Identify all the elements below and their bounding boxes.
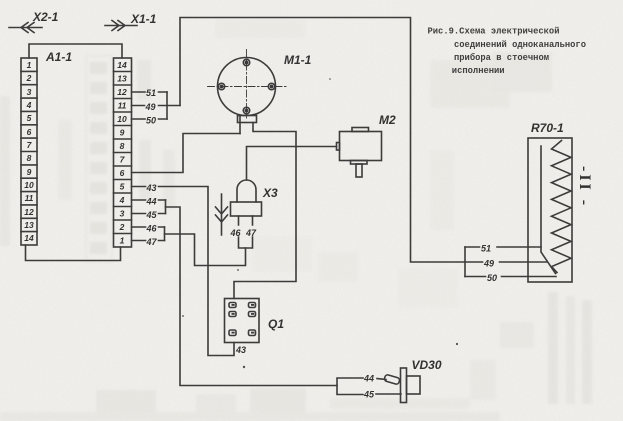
svg-text:12: 12: [117, 87, 127, 97]
label 43 at Q1: [235, 345, 246, 355]
svg-text:4: 4: [26, 100, 32, 110]
svg-text:44: 44: [146, 197, 157, 207]
label 47: [245, 228, 257, 238]
svg-text:11: 11: [25, 193, 34, 203]
svg-text:X2-1: X2-1: [32, 10, 59, 24]
label 51: [146, 88, 156, 98]
svg-text:6: 6: [120, 168, 125, 178]
svg-text:M1-1: M1-1: [284, 53, 312, 67]
svg-text:50: 50: [487, 273, 497, 283]
svg-text:45: 45: [146, 210, 158, 220]
label Q1: [268, 317, 284, 331]
caption line 4: [452, 66, 505, 76]
wire M1-1 feed from pin 6: [132, 134, 241, 173]
wire motor right lead to M2 node: [234, 123, 296, 299]
svg-text:43: 43: [235, 345, 246, 355]
igniter VD30 cable wires 44 and 45: [337, 378, 401, 395]
label 43: [146, 183, 157, 193]
junction bracket 51-49-50 at R70-1: [464, 247, 466, 277]
svg-text:A1-1: A1-1: [45, 50, 72, 64]
label M2: [379, 113, 396, 127]
svg-text:Рис.9.Схема электрической: Рис.9.Схема электрической: [428, 27, 560, 37]
svg-text:49: 49: [145, 102, 156, 112]
heater internal lead: [541, 146, 556, 274]
svg-text:1: 1: [120, 236, 125, 246]
connector symbol X2-1: [9, 23, 42, 33]
wire 46 from pin 2: [132, 226, 165, 228]
svg-text:Q1: Q1: [268, 317, 284, 331]
connector block X1-1: [114, 58, 132, 247]
wire motor left lead: [239, 116, 241, 134]
svg-text:10: 10: [117, 114, 127, 124]
wire A1-1 top to X1-1 top: [29, 44, 122, 58]
wire 50 to R70-1: [465, 276, 556, 278]
X1-1 pin numbers 14-1: [117, 60, 127, 246]
label 44: [146, 197, 157, 207]
junction bracket 46-47: [164, 227, 166, 241]
svg-text:14: 14: [117, 60, 127, 70]
svg-text:13: 13: [117, 74, 127, 84]
svg-text:2: 2: [119, 222, 125, 232]
svg-text:3: 3: [120, 209, 125, 219]
label 46: [146, 224, 158, 234]
svg-text:исполнении: исполнении: [452, 66, 505, 76]
junction bracket 51-49-50: [166, 92, 168, 119]
motor M1-1 center lines: [208, 50, 287, 119]
VD30 angled terminal stub: [384, 374, 400, 384]
label 45 at VD30: [363, 390, 375, 400]
svg-text:M2: M2: [379, 113, 396, 127]
wire 47 from pin 1: [132, 240, 165, 242]
svg-text:45: 45: [363, 390, 375, 400]
label 45: [146, 210, 158, 220]
connector block A1-1: [21, 58, 37, 245]
svg-text:46: 46: [230, 228, 242, 238]
svg-text:X3: X3: [262, 186, 278, 200]
wire 45 from pin 3: [132, 213, 166, 215]
svg-text:9: 9: [120, 128, 125, 138]
svg-text:5: 5: [27, 113, 32, 123]
svg-text:13: 13: [24, 220, 34, 230]
svg-text:2: 2: [26, 73, 32, 83]
svg-text:51: 51: [481, 244, 491, 254]
svg-text:50: 50: [146, 116, 156, 126]
svg-text:6: 6: [27, 127, 32, 137]
svg-text:44: 44: [363, 374, 374, 384]
svg-text:46: 46: [146, 224, 158, 234]
wire 51 from pin 12: [132, 91, 168, 93]
label 50: [487, 273, 497, 283]
label M1-1: [284, 53, 312, 67]
wire 44 from pin 4: [132, 199, 166, 201]
plug X3 body: [231, 180, 262, 216]
svg-text:11: 11: [118, 101, 127, 111]
svg-text:3: 3: [27, 87, 32, 97]
wire A1-1 bottom to X1-1 bottom: [26, 245, 121, 261]
svg-text:-II -: -II -: [576, 166, 593, 208]
motor M1-1 body: [218, 58, 276, 123]
label VD30: [412, 358, 442, 372]
label A1-1: [45, 50, 72, 64]
svg-text:51: 51: [146, 88, 156, 98]
svg-text:X1-1: X1-1: [130, 12, 157, 26]
label X2-1: [32, 10, 59, 24]
svg-text:R70-1: R70-1: [531, 121, 564, 135]
svg-text:47: 47: [245, 228, 257, 238]
solenoid M2: [337, 128, 382, 178]
wire heater feed route to R70-1: [180, 18, 547, 263]
label R70-1: [531, 121, 564, 135]
heater element zigzag: [552, 141, 572, 273]
label 49: [483, 259, 494, 269]
flow direction arrow: [216, 194, 228, 235]
heater R70-1 enclosure: [528, 138, 572, 282]
svg-text:14: 14: [24, 233, 34, 243]
motor M1-1 mounting bolts: [218, 59, 274, 113]
label 47: [146, 237, 158, 247]
svg-text:5: 5: [120, 182, 125, 192]
svg-text:8: 8: [27, 153, 32, 163]
svg-text:1: 1: [27, 60, 32, 70]
svg-text:прибора в стоечном: прибора в стоечном: [454, 52, 549, 63]
svg-text:47: 47: [146, 237, 158, 247]
junction bracket 44-45: [165, 200, 167, 214]
relay Q1 body: [225, 299, 260, 343]
A1-1 pin numbers 1-14: [24, 60, 34, 243]
connector symbol X1-1: [105, 21, 137, 31]
VD30 flange: [401, 368, 407, 403]
svg-text:12: 12: [24, 207, 34, 217]
wire X3 center pin to M2: [247, 147, 337, 181]
label 44 at VD30: [363, 374, 374, 384]
caption line 1: [428, 27, 560, 37]
wire 44-45 route to VD30: [166, 207, 338, 386]
svg-text:соединений одноканального: соединений одноканального: [454, 40, 586, 50]
wire 46-47 route to X3: [165, 234, 246, 266]
marking II beside heater: [576, 166, 593, 208]
wire 49 from pin 11: [132, 105, 181, 107]
label 46: [230, 228, 242, 238]
wire 51 to R70-1: [465, 246, 541, 248]
X3 contact pins 46 and 47: [239, 216, 253, 248]
label X3: [262, 186, 278, 200]
label 49: [145, 102, 156, 112]
svg-text:8: 8: [120, 141, 125, 151]
wire 50 from pin 10: [132, 118, 168, 120]
VD30 body: [407, 376, 421, 394]
svg-text:49: 49: [483, 259, 494, 269]
svg-text:9: 9: [27, 167, 32, 177]
svg-text:VD30: VD30: [412, 358, 442, 372]
wire 43 from pin 5 to Q1: [132, 187, 235, 356]
ink specks: [182, 78, 458, 368]
svg-text:43: 43: [146, 183, 157, 193]
svg-text:4: 4: [119, 195, 125, 205]
Q1 contact pads: [229, 303, 256, 336]
label 51: [481, 244, 491, 254]
caption line 2: [454, 40, 586, 50]
label 50: [146, 116, 156, 126]
svg-text:10: 10: [24, 180, 34, 190]
caption line 3: [454, 52, 549, 63]
label X1-1: [130, 12, 157, 26]
